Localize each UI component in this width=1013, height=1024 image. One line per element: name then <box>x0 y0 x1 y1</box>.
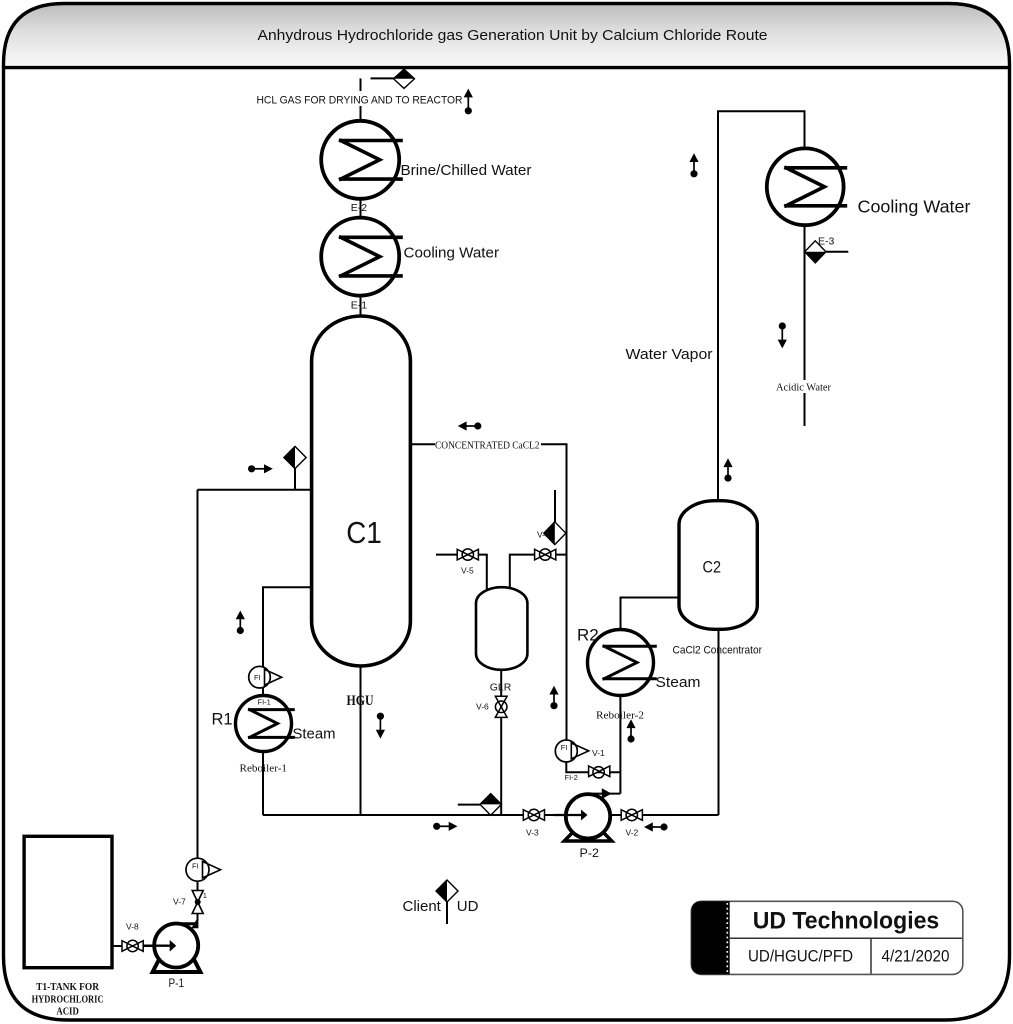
svg-text:Reboiler-2: Reboiler-2 <box>596 710 644 722</box>
valve V-5 <box>457 549 478 560</box>
wire stub to top diamond <box>371 77 399 79</box>
wire E-1 to C1 top <box>360 295 362 316</box>
wire E-3 flag stub <box>826 251 848 253</box>
flag diamond C1 feed (left half filled) <box>284 446 306 468</box>
wire client flag stem <box>446 900 448 924</box>
pump P-1 <box>144 916 201 972</box>
svg-text:V-1: V-1 <box>592 748 605 758</box>
wire FI-2 to V-1 line <box>566 761 620 772</box>
node flow indicator I2 up <box>689 153 698 177</box>
svg-text:FI: FI <box>561 743 568 752</box>
svg-text:Water Vapor: Water Vapor <box>626 346 713 363</box>
svg-text:HYDROCHLORIC: HYDROCHLORIC <box>32 993 104 1005</box>
svg-text:FI: FI <box>254 673 261 682</box>
valve V-4 <box>535 549 556 560</box>
svg-text:Acidic Water: Acidic Water <box>776 383 831 394</box>
svg-text:Anhydrous Hydrochloride gas Ge: Anhydrous Hydrochloride gas Generation U… <box>258 27 768 44</box>
svg-text:Brine/Chilled Water: Brine/Chilled Water <box>401 162 532 179</box>
svg-text:UD/HGUC/PFD: UD/HGUC/PFD <box>748 947 853 966</box>
column C2 <box>679 501 757 630</box>
instrument FI-1 (R1) <box>249 666 282 688</box>
svg-text:FI-1: FI-1 <box>258 698 271 707</box>
tank T1 <box>24 836 112 967</box>
svg-text:CaCl2 Concentrator: CaCl2 Concentrator <box>673 645 763 657</box>
svg-text:R2: R2 <box>577 626 599 645</box>
svg-text:Steam: Steam <box>656 674 701 691</box>
valve V-1 <box>589 766 610 778</box>
svg-text:E-3: E-3 <box>818 235 835 247</box>
svg-text:UD Technologies: UD Technologies <box>753 908 940 935</box>
svg-text:P-2: P-2 <box>580 848 600 860</box>
svg-text:CONCENTRATED CaCL2: CONCENTRATED CaCL2 <box>435 440 540 452</box>
node flow indicator I7 up <box>236 611 245 635</box>
wire C1 feed diamond stub <box>294 466 296 490</box>
valve V-7 (vertical) <box>192 891 203 914</box>
valve V-6 (vertical) <box>495 696 507 717</box>
header separator <box>3 66 1010 69</box>
node flow indicator I9 up <box>549 686 558 710</box>
svg-text:1: 1 <box>203 891 207 900</box>
node flow indicator I3 down <box>778 322 787 348</box>
wire V-4 flag stem <box>554 490 556 522</box>
node flow indicator I1 up <box>464 89 473 115</box>
flag diamond HCL top (top half filled) <box>394 69 415 88</box>
svg-text:V-2: V-2 <box>626 828 639 838</box>
valve V-8 <box>122 940 143 951</box>
title block <box>691 901 963 974</box>
svg-text:Reboiler-1: Reboiler-1 <box>240 763 288 775</box>
svg-text:Cooling Water: Cooling Water <box>404 245 500 262</box>
wire C1 right CaCl2 line <box>411 444 567 740</box>
svg-text:HGU: HGU <box>347 693 374 709</box>
wire R2 riser <box>619 630 621 794</box>
svg-text:HCL GAS FOR DRYING AND TO REAC: HCL GAS FOR DRYING AND TO REACTOR <box>257 95 463 107</box>
wire GLR bottom drain <box>500 668 502 815</box>
wire stub left of bottom diamond <box>458 804 481 806</box>
svg-text:4/21/2020: 4/21/2020 <box>882 947 950 966</box>
label HCL GAS <box>257 91 463 107</box>
svg-text:Cooling Water: Cooling Water <box>858 197 971 217</box>
svg-text:E-1: E-1 <box>351 300 368 312</box>
svg-text:V-7: V-7 <box>173 897 186 907</box>
heat exchanger E-2 <box>321 121 401 199</box>
reboiler R2 <box>588 630 656 696</box>
wire C2 bottom line <box>718 629 720 815</box>
flag diamond client (left half filled) <box>436 880 458 902</box>
heat exchanger E-1 <box>321 218 401 296</box>
valve V-3 <box>523 809 544 820</box>
wire left riser P-1 to C1 <box>197 490 199 921</box>
wire C1 feed horizontal <box>198 489 312 491</box>
wire R2 top to C2 <box>621 598 680 630</box>
wire T1 to P-1 <box>112 945 155 947</box>
svg-text:FI: FI <box>192 862 199 871</box>
wire HGU line <box>360 664 362 815</box>
valve V-2 <box>621 809 642 820</box>
node flow indicator I12 left <box>644 822 668 831</box>
pump P-2 <box>554 788 612 841</box>
wire C1 left nozzle to R1 riser <box>263 587 312 815</box>
wire E-3 outlet down <box>804 224 806 427</box>
label T1 tank caption <box>32 981 104 1017</box>
header band <box>4 4 1009 68</box>
flag diamond bottom header (top half filled) <box>480 794 501 816</box>
svg-text:V-4: V-4 <box>537 530 550 540</box>
svg-text:FI-2: FI-2 <box>565 773 578 782</box>
node flow indicator I5 right <box>248 464 273 473</box>
node flow indicator I6 left <box>458 421 482 430</box>
node flow indicator I10 up <box>626 719 635 742</box>
wire E-2 top to header <box>360 78 362 121</box>
svg-text:GLR: GLR <box>490 682 512 694</box>
svg-text:V-5: V-5 <box>461 566 474 576</box>
svg-text:Client: Client <box>403 898 442 915</box>
svg-text:C1: C1 <box>346 515 382 550</box>
svg-text:V-6: V-6 <box>476 702 489 712</box>
flag diamond V-4 (left half filled) <box>544 522 566 545</box>
column C1 <box>312 316 411 666</box>
heat exchanger E-3 <box>767 148 846 225</box>
label Acidic Water <box>776 380 831 394</box>
svg-text:V-3: V-3 <box>526 828 539 838</box>
node flow indicator I8 down <box>376 713 385 739</box>
svg-text:V-8: V-8 <box>126 922 139 932</box>
svg-text:UD: UD <box>457 898 479 915</box>
node flow indicator I4 up <box>723 458 732 481</box>
wire C2 top riser to E-3 <box>718 111 805 500</box>
svg-text:R1: R1 <box>212 711 233 729</box>
node flow indicator I11 right <box>433 822 457 831</box>
wire GLR top to V-4 junction <box>510 555 567 592</box>
svg-text:P-1: P-1 <box>169 978 185 990</box>
vessel GLR <box>476 587 527 670</box>
instrument FI (P-1) <box>186 858 221 881</box>
svg-text:E-2: E-2 <box>351 202 368 214</box>
instrument FI-2 (P-2) <box>555 740 588 762</box>
svg-text:ACID: ACID <box>56 1005 79 1017</box>
wire E-2 to E-1 <box>360 198 362 218</box>
svg-text:Steam: Steam <box>293 726 336 743</box>
flag diamond E-3 (bottom half filled) <box>805 241 826 263</box>
svg-text:T1-TANK FOR: T1-TANK FOR <box>36 981 100 993</box>
svg-text:C2: C2 <box>703 558 722 577</box>
wire bottom main header <box>263 814 719 816</box>
reboiler R1 <box>236 696 294 752</box>
label CONCENTRATED CaCL2 <box>435 439 541 452</box>
wire V-5 inlet <box>436 555 487 592</box>
wire P-2 discharge <box>591 793 620 795</box>
